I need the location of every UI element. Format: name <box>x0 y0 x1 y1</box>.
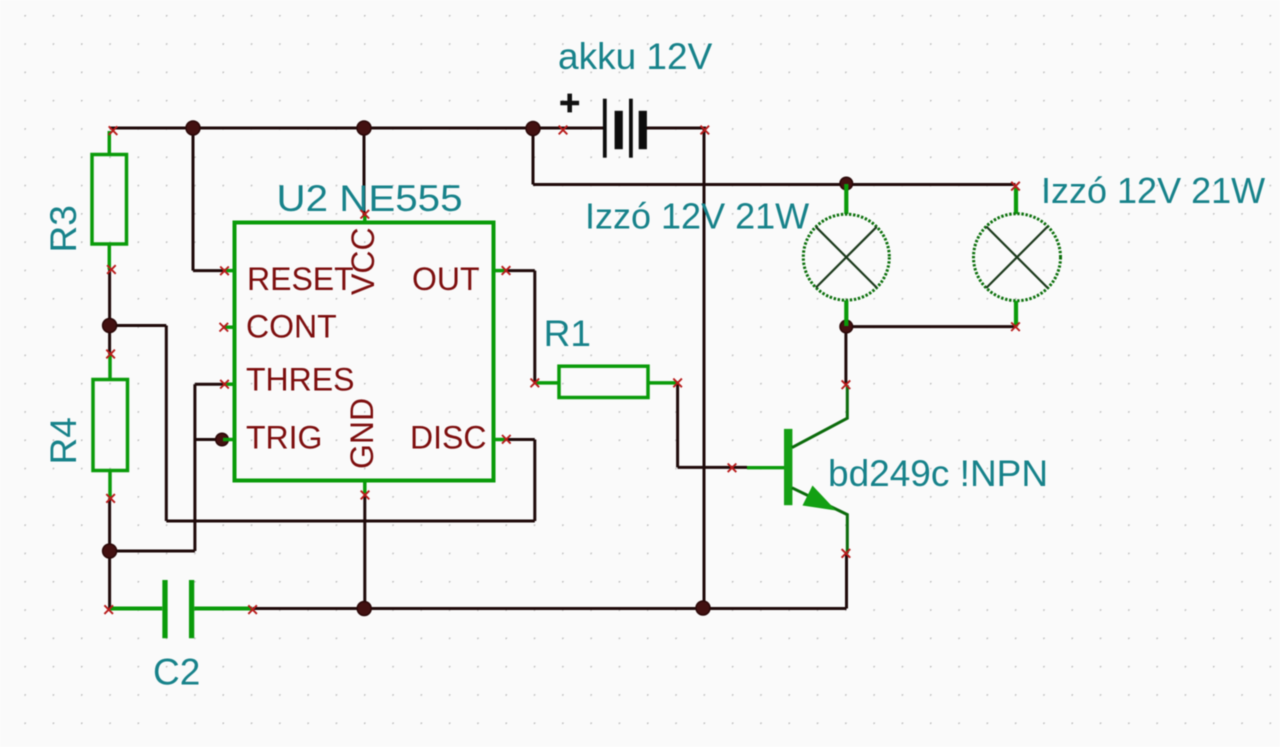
wire GND bottom rail <box>253 607 847 610</box>
pin stub RESET <box>223 269 235 273</box>
junction top rail / RESET <box>186 121 200 135</box>
junction TRIG pin <box>216 433 229 446</box>
pin mark R3 top <box>109 126 118 135</box>
pin stub CONT <box>223 325 235 329</box>
pin mark R1 right <box>673 379 682 388</box>
pin mark GND <box>361 491 370 500</box>
pin mark battery plus <box>559 126 568 135</box>
wire to THRES pin <box>195 383 226 386</box>
pin mark Q1 collector <box>842 380 851 389</box>
svg-text:Izzó 12V 21W: Izzó 12V 21W <box>585 196 809 237</box>
resistor R3 <box>92 131 127 270</box>
svg-text:THRES: THRES <box>246 362 354 398</box>
wire to RESET (vert) <box>192 128 195 271</box>
wire DISC branch (horiz2) <box>166 520 535 523</box>
wire OUT pin out <box>506 269 535 272</box>
wire battery minus down <box>703 128 706 609</box>
pin stub GND <box>363 481 367 495</box>
pin mark Q1 base <box>728 464 737 473</box>
wire DISC branch (vert) <box>165 326 168 522</box>
wire node to C2 left <box>108 551 111 610</box>
junction top rail / lamp feed <box>526 122 540 136</box>
pin mark RESET <box>220 267 229 276</box>
svg-text:CONT: CONT <box>246 309 337 345</box>
pin mark battery minus <box>701 126 710 135</box>
pin stub THRES <box>223 382 235 386</box>
svg-text:VCC: VCC <box>345 227 381 295</box>
wire R4 bottom to node <box>108 498 111 551</box>
pin mark CONT <box>220 323 229 332</box>
wire node to DISC branch (horiz) <box>110 324 167 327</box>
IC U2 NE555 body <box>235 223 494 481</box>
pin mark lamp2 top <box>1011 182 1020 191</box>
wire OUT down to R1 <box>533 271 536 383</box>
svg-text:GND: GND <box>344 398 380 469</box>
wire DISC branch up <box>533 440 536 522</box>
wire collector to lamp node <box>844 327 847 385</box>
pin mark R4 bottom <box>106 494 115 503</box>
wire emitter down <box>845 553 848 608</box>
wire R3 bottom to node <box>108 270 111 326</box>
pin mark OUT <box>502 266 511 275</box>
junction bottom rail / battery minus <box>696 601 710 615</box>
junction lamp1 bottom <box>840 320 853 333</box>
svg-text:akku 12V: akku 12V <box>558 36 713 77</box>
wire to TRIG pin <box>195 438 222 441</box>
svg-text:Izzó 12V 21W: Izzó 12V 21W <box>1041 170 1265 211</box>
wire lamp2 bottom stubjoin <box>1014 322 1017 327</box>
wire to DISC pin <box>506 438 535 441</box>
pin mark VCC <box>361 210 370 219</box>
battery akku 12V <box>603 99 647 158</box>
pin mark R1 left <box>531 379 540 388</box>
wire to RESET (horiz) <box>193 269 226 272</box>
junction lamp1 top <box>840 177 853 190</box>
junction top rail / VCC <box>357 121 371 135</box>
junction R4/C2/THRES node <box>103 544 117 558</box>
wire rail to lamps (vert) <box>532 128 535 185</box>
capacitor C2 <box>111 580 253 638</box>
wire +12V top rail <box>110 127 603 130</box>
pin mark Q1 emitter <box>842 549 851 558</box>
lamp LAMP2 <box>974 187 1061 327</box>
pin mark R3 bottom <box>107 265 116 274</box>
svg-text:DISC: DISC <box>410 420 486 456</box>
wire to VCC pin <box>363 128 366 215</box>
svg-text:R4: R4 <box>43 417 84 464</box>
wire GND pin down <box>363 495 366 609</box>
wire node to R4 top <box>108 326 111 355</box>
wire THRES branch (vert) <box>193 384 196 551</box>
pin mark R4 top <box>106 350 115 359</box>
svg-text:RESET: RESET <box>247 261 354 297</box>
svg-text:R1: R1 <box>544 313 591 354</box>
pin mark lamp2 bottom <box>1011 322 1020 331</box>
pin mark THRES <box>220 380 229 389</box>
pin mark DISC <box>502 435 511 444</box>
wire battery minus stub <box>646 127 706 130</box>
pin stub VCC <box>363 214 367 223</box>
svg-text:C2: C2 <box>153 652 200 693</box>
wire lamp feed (horiz) <box>533 183 1016 186</box>
resistor R1 <box>535 366 678 397</box>
svg-text:TRIG: TRIG <box>246 420 322 456</box>
resistor R4 <box>93 354 128 498</box>
pin stub DISC <box>494 438 507 442</box>
pin stub OUT <box>494 269 507 273</box>
transistor Q1 bd249c <box>747 385 847 553</box>
svg-text:bd249c !NPN: bd249c !NPN <box>828 453 1048 494</box>
junction bottom rail / GND <box>357 602 371 616</box>
wire node to THRES branch <box>110 550 195 553</box>
pin mark C2 left <box>104 605 113 614</box>
lamp LAMP1 <box>803 184 889 326</box>
svg-text:OUT: OUT <box>412 261 480 297</box>
svg-text:R3: R3 <box>43 205 84 252</box>
pin mark C2 right <box>248 605 257 614</box>
pin stub TRIG <box>223 438 235 442</box>
wire R1 to base (horiz) <box>678 466 747 469</box>
battery plus sign <box>560 94 579 113</box>
wire R1 to base (vert) <box>676 383 679 468</box>
svg-text:U2 NE555: U2 NE555 <box>277 178 463 219</box>
wire lamp bottoms link <box>846 325 1015 328</box>
junction R3/R4 node <box>103 319 117 333</box>
